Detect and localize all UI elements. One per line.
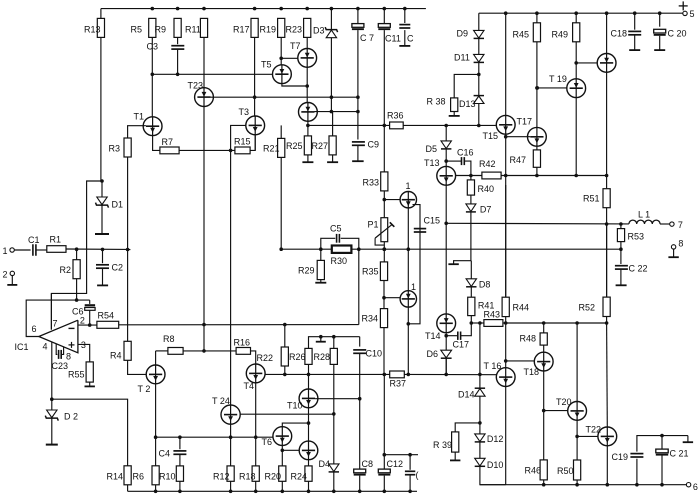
- svg-text:R27: R27: [312, 141, 329, 151]
- diode D12: [475, 434, 485, 442]
- resistor R3: [124, 138, 131, 157]
- svg-text:R6: R6: [133, 471, 145, 481]
- wire T9 emitter: [307, 121, 309, 136]
- svg-text:R7: R7: [162, 137, 174, 147]
- svg-text:R20: R20: [265, 471, 282, 481]
- node T23 end: [202, 323, 206, 327]
- terminal bar R25: [302, 161, 313, 163]
- svg-text:T15: T15: [483, 131, 499, 141]
- svg-text:R55: R55: [68, 369, 85, 379]
- transistor T19: [567, 79, 586, 98]
- diode D8: [466, 279, 476, 287]
- svg-text:R15: R15: [234, 136, 251, 146]
- resistor R19: [278, 18, 285, 37]
- resistor R5: [149, 18, 156, 37]
- wire T9 base right: [315, 111, 358, 113]
- node D5 top: [444, 124, 448, 128]
- svg-text:T 19: T 19: [549, 74, 567, 84]
- svg-text:D7: D7: [480, 204, 492, 214]
- svg-text:R40: R40: [478, 184, 495, 194]
- wire T18 emitter: [543, 371, 545, 460]
- terminal bar R27: [327, 161, 338, 163]
- resistor R29: [320, 249, 322, 260]
- capacitor C12: [383, 374, 385, 469]
- node C14 row: [383, 453, 387, 457]
- svg-text:R12: R12: [213, 471, 230, 481]
- terminal bar C2: [97, 284, 108, 286]
- node T21 base: [574, 61, 578, 65]
- svg-text:C 22: C 22: [629, 263, 648, 273]
- terminal 7: [670, 222, 674, 226]
- svg-text:R50: R50: [557, 466, 574, 476]
- wire T24 base: [240, 413, 334, 415]
- wire pin 7 supply: [50, 293, 52, 329]
- resistor R47: [536, 146, 538, 150]
- capacitor C4 branch: [179, 437, 181, 449]
- svg-text:P1: P1: [368, 219, 379, 229]
- diode D5: [445, 126, 447, 141]
- junction R9 top: [176, 7, 180, 11]
- zener D1: [101, 181, 103, 197]
- capacitor C14: [405, 470, 415, 472]
- svg-text:D1: D1: [112, 200, 124, 210]
- node T15 emitter: [504, 174, 508, 178]
- capacitor C7: [357, 9, 359, 23]
- wire R13 to D1: [100, 37, 102, 181]
- wire to R38: [454, 74, 479, 98]
- wire T19 emitter: [575, 98, 577, 176]
- capacitor C13: [404, 9, 406, 23]
- diode D11: [478, 38, 480, 54]
- junction R11 top: [202, 7, 206, 11]
- svg-text:R53: R53: [628, 231, 645, 241]
- svg-text:7: 7: [53, 319, 58, 329]
- wire to T7 base: [281, 57, 298, 59]
- svg-text:C16: C16: [457, 147, 474, 157]
- svg-text:R4: R4: [110, 350, 122, 360]
- capacitor C3: [171, 45, 184, 47]
- resistor R8: [168, 348, 183, 355]
- resistor R24: [305, 466, 312, 481]
- wire feedback rail: [281, 248, 621, 250]
- opamp plus sign: [69, 344, 75, 346]
- resistor R34: [380, 309, 387, 328]
- transistor T15: [505, 13, 507, 115]
- node R44 bottom: [504, 321, 508, 325]
- ground stub right: [687, 436, 689, 442]
- wire T4 emitter: [255, 383, 257, 466]
- wire T10 collector: [308, 374, 310, 389]
- terminal bar C18: [629, 49, 640, 51]
- node T7 base: [279, 57, 283, 61]
- wire emitter row: [156, 436, 273, 438]
- resistor R42: [482, 172, 501, 179]
- node T22 base: [575, 435, 579, 439]
- wire T14 emitter: [445, 333, 447, 375]
- junction C11 top: [383, 7, 387, 11]
- svg-text:R22: R22: [257, 353, 274, 363]
- svg-text:T10: T10: [287, 400, 303, 410]
- resistor R46: [540, 460, 547, 480]
- node T11 base: [383, 198, 387, 202]
- svg-text:C4: C4: [159, 448, 171, 458]
- svg-text:R9: R9: [155, 24, 167, 34]
- svg-text:R 39: R 39: [433, 440, 452, 450]
- svg-text:T23: T23: [188, 80, 204, 90]
- wire long vertical to T24: [230, 150, 232, 405]
- svg-text:T3: T3: [239, 107, 250, 117]
- wire T19 base: [537, 87, 567, 89]
- wire R4: [127, 250, 129, 342]
- svg-text:C: C: [407, 33, 414, 43]
- diode D4: [329, 464, 339, 472]
- resistor R6: [152, 466, 159, 485]
- transistor T17: [528, 127, 547, 146]
- svg-text:T 16: T 16: [484, 361, 502, 371]
- svg-text:C 20: C 20: [668, 28, 687, 38]
- resistor R51: [603, 189, 610, 208]
- svg-text:R1: R1: [50, 234, 62, 244]
- transistor T2: [146, 365, 165, 384]
- svg-text:D5: D5: [426, 144, 438, 154]
- wire C15 corner: [408, 205, 420, 324]
- wire P1 bottom: [383, 242, 385, 262]
- junction D3 top: [330, 7, 334, 11]
- svg-text:R35: R35: [362, 266, 379, 276]
- diode D13: [474, 95, 484, 97]
- transistor T4: [246, 364, 265, 383]
- node P1/R35: [383, 247, 387, 251]
- diode D6: [441, 350, 452, 358]
- wire R36 node line: [308, 124, 390, 126]
- wire base drive row long: [265, 373, 390, 375]
- node R51 top: [605, 174, 609, 178]
- svg-text:2: 2: [3, 269, 8, 279]
- wire T6 emitter: [281, 446, 283, 466]
- svg-text:C9: C9: [368, 139, 380, 149]
- svg-text:C2: C2: [112, 262, 124, 272]
- resistor R41: [470, 287, 472, 297]
- wire T21 base: [576, 62, 597, 64]
- svg-text:R26: R26: [289, 352, 306, 362]
- wire D14 chain top: [479, 323, 481, 388]
- svg-text:R23: R23: [286, 24, 303, 34]
- svg-text:R18: R18: [239, 471, 256, 481]
- svg-text:6: 6: [32, 324, 37, 334]
- op-amp IC1 triangle: [39, 320, 78, 353]
- svg-text:D3: D3: [313, 26, 325, 36]
- wire T8 base: [282, 449, 299, 451]
- wire T23 base to T3/D3: [211, 96, 358, 98]
- svg-text:C8: C8: [362, 459, 374, 469]
- terminal bar C20: [654, 49, 665, 51]
- resistor R14: [124, 466, 131, 485]
- wire opamp output feedback: [26, 300, 89, 336]
- node R34/C12: [383, 373, 387, 377]
- ground stub R26 R28: [320, 337, 322, 342]
- svg-text:D11: D11: [454, 52, 470, 62]
- transistor T7: [298, 49, 317, 68]
- capacitor C1: [32, 244, 34, 256]
- wire R8 to T2: [155, 351, 157, 365]
- node T18 base: [504, 359, 508, 363]
- resistor R1: [47, 246, 66, 253]
- resistor R49: [573, 23, 580, 42]
- resistor R44: [502, 297, 509, 316]
- svg-text:R48: R48: [520, 333, 537, 343]
- resistor R45: [533, 23, 540, 42]
- svg-text:C3: C3: [147, 42, 159, 52]
- wire T13 emitter down: [445, 185, 447, 314]
- node C17 tap: [444, 334, 448, 338]
- node T24 base end: [332, 412, 336, 416]
- svg-text:R36: R36: [387, 110, 404, 120]
- resistor R53: [620, 224, 622, 229]
- svg-text:R52: R52: [579, 302, 596, 312]
- node T19 emitter: [574, 174, 578, 178]
- svg-text:C15: C15: [424, 215, 441, 225]
- wire R26 R28 top: [309, 337, 360, 349]
- wire bottom rail right: [480, 484, 687, 486]
- terminal bar C9: [352, 160, 364, 162]
- resistor R26: [305, 348, 312, 364]
- resistor R23: [304, 18, 311, 37]
- svg-text:R 38: R 38: [427, 96, 446, 106]
- resistor R17: [251, 18, 258, 37]
- svg-text:2: 2: [80, 315, 85, 325]
- transistor T11: [400, 192, 416, 208]
- capacitor C17: [446, 335, 458, 337]
- resistor R13: [100, 9, 102, 19]
- P1 wiper arrow: [375, 224, 392, 238]
- resistor R18: [252, 466, 259, 481]
- wire D10 to rail: [480, 466, 506, 484]
- capacitor C5 bypass loop: [321, 238, 336, 249]
- wire T15 emitter: [505, 134, 507, 297]
- node R40 top: [469, 174, 473, 178]
- svg-text:C 7: C 7: [360, 33, 374, 43]
- svg-text:D6: D6: [427, 349, 439, 359]
- node R52 bottom: [605, 321, 609, 325]
- diode D7: [466, 204, 476, 212]
- svg-text:D8: D8: [479, 279, 491, 289]
- svg-text:D10: D10: [487, 460, 504, 470]
- resistor R9: [174, 18, 181, 37]
- capacitor C23 pin 8: [56, 344, 57, 355]
- svg-text:1: 1: [3, 246, 8, 256]
- svg-text:R21: R21: [263, 143, 280, 153]
- resistor R36: [390, 122, 404, 129]
- wire T23 collector long: [203, 107, 205, 351]
- svg-text:C23: C23: [52, 361, 69, 371]
- svg-text:T14: T14: [425, 331, 441, 341]
- svg-text:T6: T6: [262, 437, 273, 447]
- node R47 bottom: [535, 174, 539, 178]
- node R22 bottom: [283, 373, 287, 377]
- terminal bar R39: [450, 459, 460, 461]
- terminal bar R38: [449, 115, 460, 117]
- wire to T12 base: [384, 297, 400, 299]
- node R48 top: [542, 321, 546, 325]
- svg-text:R10: R10: [159, 471, 176, 481]
- resistor R15: [235, 147, 250, 154]
- junction C13 top: [403, 7, 407, 11]
- wire T20 collector: [576, 323, 578, 402]
- node T17 base: [504, 135, 508, 139]
- svg-text:R17: R17: [233, 24, 250, 34]
- wire T1 emitter to R7: [153, 136, 160, 151]
- svg-text:T22: T22: [586, 424, 602, 434]
- resistor R11: [200, 18, 207, 37]
- svg-text:T5: T5: [261, 59, 272, 69]
- svg-text:R25: R25: [286, 141, 303, 151]
- wire C11 node to R33: [383, 125, 385, 171]
- svg-text:D4: D4: [319, 459, 331, 469]
- diode D9: [478, 13, 480, 30]
- resistor R12: [227, 466, 234, 481]
- opamp minus sign: [69, 327, 75, 329]
- transistor T18: [534, 352, 553, 371]
- terminal 2: [10, 271, 14, 275]
- svg-text:C10: C10: [366, 348, 383, 358]
- svg-text:7: 7: [678, 220, 683, 230]
- terminal bar C22: [616, 284, 627, 286]
- capacitor C15: [414, 228, 426, 230]
- node D2: [50, 397, 54, 401]
- diode D14: [475, 387, 485, 389]
- node T24 collector line: [229, 149, 233, 153]
- wire D8 top: [470, 261, 472, 279]
- wire T22 emitter: [606, 446, 608, 485]
- svg-text:IC1: IC1: [15, 342, 29, 352]
- terminal bar R55: [85, 385, 95, 387]
- junction R5 top: [151, 7, 155, 11]
- capacitor C20: [659, 13, 661, 27]
- junction R19 top: [279, 7, 283, 11]
- svg-text:1: 1: [406, 181, 411, 191]
- resistor R37: [390, 371, 405, 378]
- svg-text:(: (: [416, 470, 419, 480]
- svg-text:T1: T1: [134, 111, 145, 121]
- resistor R39: [452, 432, 459, 452]
- wire pin 2 stub: [78, 324, 97, 326]
- wire T5 emitter: [282, 84, 307, 86]
- svg-text:R47: R47: [510, 155, 527, 165]
- resistor R35: [380, 262, 387, 281]
- svg-text:R46: R46: [525, 465, 542, 475]
- transistor T21 unlabeled: [606, 13, 608, 53]
- wire to T11 base: [384, 199, 400, 201]
- terminal 8: [671, 245, 675, 249]
- svg-text:R24: R24: [291, 471, 308, 481]
- transistor T5: [273, 65, 292, 84]
- wire R4 to T2 base: [128, 360, 147, 374]
- wire R15 to T3 emitter: [250, 135, 255, 151]
- inductor L1: [629, 220, 660, 224]
- capacitor C22: [620, 249, 622, 264]
- transistor T12: [400, 291, 416, 307]
- resistor R7: [160, 147, 179, 154]
- transistor T1: [151, 74, 153, 117]
- wire R11 to T23: [203, 37, 205, 87]
- wire T2 T4 base row: [156, 350, 168, 352]
- wire T22 base: [577, 435, 598, 437]
- transistor T8 unlabeled: [299, 441, 318, 460]
- node R35/R34: [383, 281, 385, 309]
- wire T6 collector: [282, 423, 308, 427]
- wire T10 to T8: [308, 408, 310, 441]
- wire T22 collector: [606, 323, 609, 427]
- svg-text:T 2: T 2: [138, 384, 151, 394]
- wire T16 collector: [505, 323, 507, 368]
- svg-text:R45: R45: [513, 29, 530, 39]
- svg-text:T20: T20: [556, 397, 572, 407]
- svg-text:C11: C11: [385, 33, 401, 43]
- node T12 emitter end: [407, 373, 411, 377]
- node C16 tap: [444, 159, 448, 163]
- wire T17 base: [506, 136, 531, 138]
- wire R21 bottom: [280, 157, 282, 249]
- wire bottom rail left: [128, 490, 417, 492]
- svg-text:C1: C1: [28, 235, 40, 245]
- node T19 base tap: [535, 86, 539, 90]
- node output takeoff: [444, 222, 448, 226]
- svg-text:R19: R19: [260, 24, 277, 34]
- node T23 line end: [202, 349, 206, 353]
- svg-text:R28: R28: [314, 352, 331, 362]
- wire C14 branch: [384, 454, 418, 456]
- ground terminal 2: [11, 276, 13, 285]
- wire top supply rail right: [479, 12, 683, 14]
- resistor R43: [484, 320, 503, 327]
- resistor R52: [603, 297, 610, 316]
- capacitor C16: [446, 160, 461, 162]
- svg-text:R54: R54: [98, 310, 115, 320]
- wire T3 base left: [231, 125, 246, 150]
- resistor R21: [280, 125, 282, 138]
- node D3 anode: [330, 95, 334, 99]
- svg-text:C 21: C 21: [670, 448, 689, 458]
- resistor R55: [86, 362, 93, 382]
- transistor T23: [195, 88, 214, 107]
- node T16 base row: [478, 373, 482, 377]
- transistor T3: [246, 116, 265, 135]
- ground below D1: [95, 233, 109, 235]
- node D14 top: [478, 321, 482, 325]
- wire R7 to R15: [179, 149, 235, 151]
- svg-text:R33: R33: [363, 177, 380, 187]
- resistor R50: [574, 460, 581, 480]
- capacitor C11: [383, 9, 385, 23]
- svg-text:C12: C12: [387, 459, 404, 469]
- svg-text:C18: C18: [611, 28, 628, 38]
- resistor R4: [124, 341, 131, 360]
- terminal bar C13: [399, 45, 410, 47]
- wire R54 to feedback node: [119, 324, 359, 326]
- ground below D2: [46, 444, 58, 446]
- svg-text:T 24: T 24: [212, 396, 230, 406]
- svg-text:C5: C5: [330, 223, 342, 233]
- transistor T20: [568, 402, 587, 421]
- wire output node: [446, 222, 629, 225]
- wire R39: [455, 423, 480, 432]
- capacitor C8: [354, 469, 366, 473]
- transistor T16: [496, 368, 515, 387]
- potentiometer P1: [381, 218, 388, 242]
- svg-text:R51: R51: [583, 193, 600, 203]
- transistor T14: [437, 314, 456, 333]
- svg-text:D13: D13: [459, 99, 476, 109]
